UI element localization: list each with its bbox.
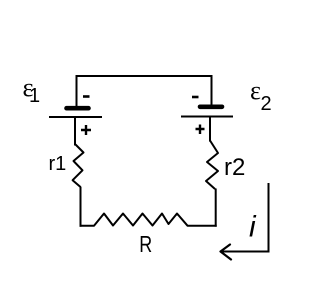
svg-text:r2: r2 [224, 154, 245, 181]
svg-text:2: 2 [261, 93, 272, 115]
svg-text:ε: ε [250, 76, 261, 105]
svg-text:r1: r1 [49, 153, 67, 175]
svg-text:R: R [139, 232, 152, 258]
svg-text:1: 1 [29, 85, 40, 107]
